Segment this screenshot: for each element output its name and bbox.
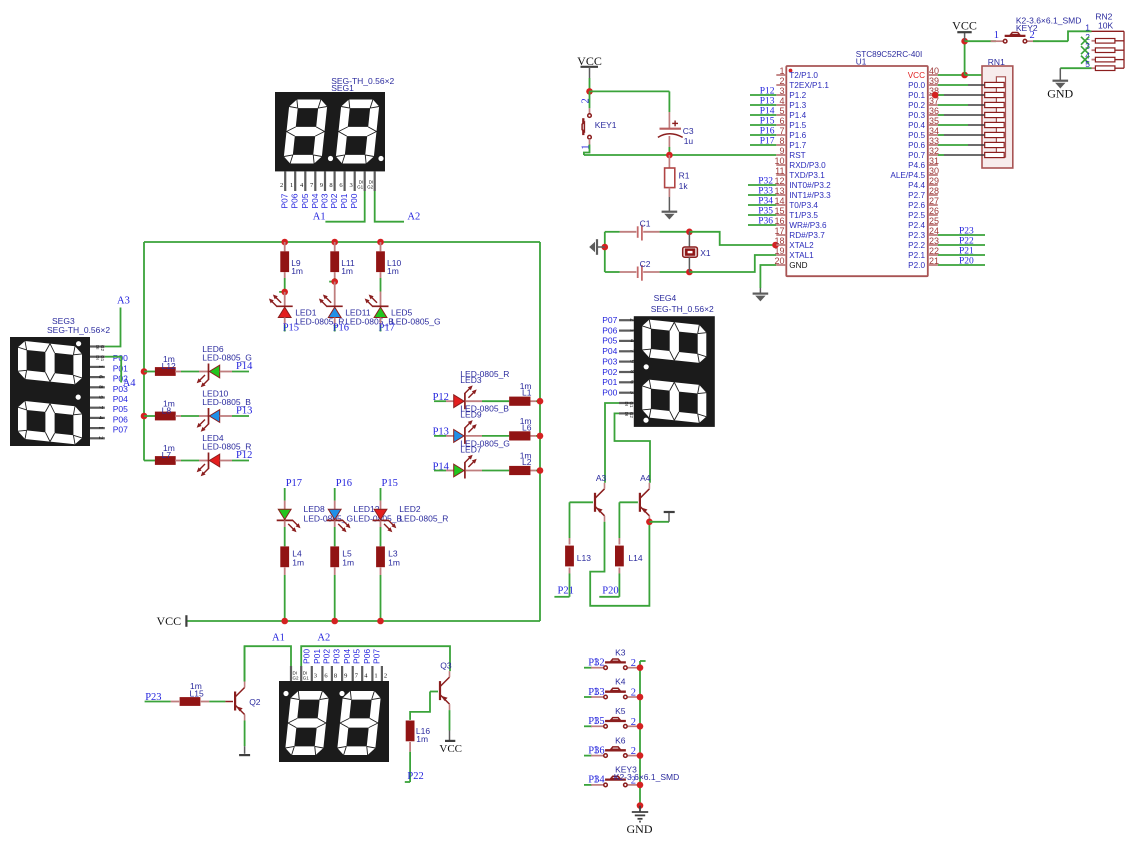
svg-text:26: 26 (929, 206, 939, 216)
svg-text:GND: GND (627, 822, 653, 836)
svg-text:A4: A4 (640, 473, 651, 483)
svg-text:8: 8 (97, 385, 104, 388)
svg-text:P33: P33 (758, 187, 773, 197)
svg-text:19: 19 (774, 246, 784, 256)
svg-text:P0.7: P0.7 (908, 151, 925, 160)
svg-text:P04: P04 (310, 193, 320, 208)
svg-text:DI: DI (624, 412, 629, 417)
svg-text:4: 4 (779, 96, 784, 106)
svg-text:A3: A3 (596, 473, 607, 483)
svg-text:VCC: VCC (157, 614, 182, 628)
svg-text:P17: P17 (760, 137, 775, 147)
svg-text:2: 2 (629, 318, 636, 321)
svg-text:VCC: VCC (439, 743, 462, 755)
svg-text:P04: P04 (113, 394, 128, 404)
svg-text:L2: L2 (522, 457, 532, 467)
svg-text:1: 1 (629, 329, 636, 332)
svg-text:P35: P35 (758, 207, 773, 217)
svg-text:A4: A4 (123, 378, 137, 389)
svg-text:L12: L12 (162, 361, 176, 371)
svg-text:20: 20 (774, 256, 784, 266)
svg-text:K2-3.6×6.1_SMD: K2-3.6×6.1_SMD (614, 772, 679, 782)
svg-text:U1: U1 (856, 58, 867, 67)
svg-text:P01: P01 (602, 377, 617, 387)
svg-text:2: 2 (384, 673, 387, 680)
svg-text:1: 1 (779, 66, 784, 76)
svg-text:36: 36 (929, 106, 939, 116)
svg-text:DI: DI (95, 355, 100, 360)
svg-text:P06: P06 (113, 414, 128, 424)
svg-text:P2.1: P2.1 (908, 251, 925, 260)
svg-text:L13: L13 (577, 553, 591, 563)
svg-text:P05: P05 (113, 404, 128, 414)
svg-text:SEG-TH_0.56×2: SEG-TH_0.56×2 (47, 325, 110, 335)
svg-text:G1: G1 (303, 676, 310, 681)
svg-text:L7: L7 (162, 450, 172, 460)
svg-text:P20: P20 (602, 586, 618, 597)
svg-text:P07: P07 (113, 425, 128, 435)
svg-text:Q3: Q3 (440, 660, 452, 670)
svg-text:P13: P13 (236, 406, 252, 417)
svg-text:P2.3: P2.3 (908, 231, 925, 240)
svg-text:P0.0: P0.0 (908, 81, 925, 90)
svg-text:P1.4: P1.4 (789, 111, 806, 120)
svg-text:G2: G2 (100, 345, 105, 352)
svg-text:G1: G1 (357, 185, 364, 190)
svg-text:R1: R1 (679, 171, 690, 181)
svg-text:A2: A2 (317, 633, 330, 644)
svg-text:3: 3 (629, 391, 636, 394)
svg-text:A1: A1 (272, 633, 285, 644)
svg-text:P2.4: P2.4 (908, 221, 925, 230)
svg-text:P02: P02 (321, 649, 331, 664)
svg-text:P01: P01 (339, 193, 349, 208)
svg-text:1: 1 (374, 673, 377, 680)
svg-text:P14: P14 (236, 361, 253, 372)
svg-text:9: 9 (97, 396, 104, 399)
svg-text:21: 21 (929, 256, 939, 266)
svg-text:P15: P15 (382, 478, 398, 489)
svg-text:P17: P17 (379, 323, 395, 334)
svg-text:P0.5: P0.5 (908, 131, 925, 140)
svg-text:24: 24 (929, 226, 939, 236)
svg-text:6: 6 (779, 116, 784, 126)
svg-text:P0.4: P0.4 (908, 121, 925, 130)
svg-text:1m: 1m (291, 266, 303, 276)
svg-text:P4.6: P4.6 (908, 161, 925, 170)
svg-text:LED-0805_G: LED-0805_G (391, 317, 441, 327)
svg-text:C1: C1 (640, 219, 651, 229)
svg-text:8: 8 (334, 673, 337, 680)
svg-text:GND: GND (1047, 87, 1073, 101)
svg-text:3: 3 (779, 86, 784, 96)
svg-text:A1: A1 (313, 211, 326, 222)
svg-text:LED7: LED7 (460, 444, 482, 454)
svg-text:P05: P05 (300, 193, 310, 208)
svg-text:P22: P22 (959, 237, 974, 247)
svg-text:K6: K6 (615, 735, 626, 745)
svg-text:P36: P36 (758, 217, 773, 227)
svg-text:C3: C3 (683, 126, 694, 136)
svg-text:P23: P23 (959, 227, 974, 237)
svg-text:KEY1: KEY1 (595, 120, 617, 130)
svg-text:11: 11 (775, 166, 784, 176)
svg-text:G2: G2 (367, 185, 374, 190)
svg-text:K4: K4 (615, 677, 626, 687)
svg-text:T2/P1.0: T2/P1.0 (789, 71, 818, 80)
svg-text:RXD/P3.0: RXD/P3.0 (789, 161, 826, 170)
svg-text:LED8: LED8 (304, 504, 326, 514)
svg-text:30: 30 (929, 166, 939, 176)
svg-text:A2: A2 (407, 211, 420, 222)
svg-text:P03: P03 (320, 193, 330, 208)
svg-text:INT1#/P3.3: INT1#/P3.3 (789, 191, 831, 200)
svg-text:P05: P05 (352, 649, 362, 664)
svg-text:P2.5: P2.5 (908, 211, 925, 220)
svg-text:29: 29 (929, 176, 939, 186)
svg-text:P1.7: P1.7 (789, 141, 806, 150)
svg-text:8: 8 (629, 370, 636, 373)
svg-text:SEG-TH_0.56×2: SEG-TH_0.56×2 (651, 304, 714, 314)
svg-text:LED3: LED3 (460, 375, 482, 385)
svg-text:P14: P14 (760, 107, 775, 117)
svg-text:G2: G2 (629, 412, 634, 419)
svg-text:1m: 1m (388, 558, 400, 568)
svg-text:P16: P16 (333, 323, 349, 334)
svg-text:3: 3 (314, 673, 317, 680)
svg-text:32: 32 (929, 146, 939, 156)
svg-text:VCC: VCC (908, 71, 925, 80)
svg-text:P04: P04 (342, 649, 352, 664)
svg-text:T2EX/P1.1: T2EX/P1.1 (789, 81, 829, 90)
svg-text:P1.3: P1.3 (789, 101, 806, 110)
svg-text:P07: P07 (280, 193, 290, 208)
svg-text:P17: P17 (286, 478, 302, 489)
svg-text:2: 2 (631, 658, 636, 669)
svg-text:G1: G1 (100, 355, 105, 362)
svg-text:39: 39 (929, 76, 939, 86)
svg-text:VCC: VCC (952, 19, 977, 33)
svg-text:35: 35 (929, 116, 939, 126)
svg-text:ALE/P4.5: ALE/P4.5 (890, 171, 925, 180)
svg-text:1: 1 (994, 30, 999, 41)
svg-text:P12: P12 (236, 450, 252, 461)
svg-text:10: 10 (774, 156, 784, 166)
svg-text:P03: P03 (602, 356, 617, 366)
svg-text:P02: P02 (602, 367, 617, 377)
svg-text:INT0#/P3.2: INT0#/P3.2 (789, 181, 831, 190)
svg-text:P00: P00 (349, 193, 359, 208)
svg-text:1u: 1u (684, 136, 694, 146)
svg-text:1: 1 (593, 657, 598, 668)
svg-text:P04: P04 (602, 346, 617, 356)
svg-text:P13: P13 (760, 97, 775, 107)
svg-text:T0/P3.4: T0/P3.4 (789, 201, 818, 210)
svg-text:10K: 10K (1098, 21, 1113, 31)
svg-text:2: 2 (779, 76, 784, 86)
svg-text:2: 2 (280, 182, 283, 189)
svg-text:27: 27 (929, 196, 939, 206)
svg-text:25: 25 (929, 216, 939, 226)
svg-text:P05: P05 (602, 336, 617, 346)
svg-text:P1.6: P1.6 (789, 131, 806, 140)
svg-text:40: 40 (929, 66, 939, 76)
svg-text:P06: P06 (362, 649, 372, 664)
svg-text:2: 2 (631, 688, 636, 699)
svg-text:P15: P15 (760, 117, 775, 127)
svg-text:1: 1 (1085, 22, 1090, 32)
svg-text:P0.3: P0.3 (908, 111, 925, 120)
svg-text:P02: P02 (329, 193, 339, 208)
svg-text:1: 1 (593, 716, 598, 727)
svg-text:P06: P06 (602, 325, 617, 335)
svg-text:7: 7 (779, 126, 784, 136)
svg-text:P06: P06 (290, 193, 300, 208)
svg-text:P20: P20 (959, 257, 974, 267)
svg-text:31: 31 (929, 156, 939, 166)
svg-text:22: 22 (929, 246, 939, 256)
svg-text:1m: 1m (292, 558, 304, 568)
svg-text:P01: P01 (312, 649, 322, 664)
svg-text:C2: C2 (640, 259, 651, 269)
svg-text:P1.5: P1.5 (789, 121, 806, 130)
svg-text:P16: P16 (336, 478, 352, 489)
svg-text:34: 34 (929, 126, 939, 136)
svg-text:P07: P07 (602, 315, 617, 325)
svg-text:K5: K5 (615, 706, 626, 716)
svg-text:23: 23 (929, 236, 939, 246)
svg-text:L6: L6 (522, 422, 532, 432)
svg-text:9: 9 (779, 146, 784, 156)
svg-text:SEG1: SEG1 (331, 83, 354, 93)
svg-text:2: 2 (97, 436, 104, 439)
svg-text:1m: 1m (387, 266, 399, 276)
svg-text:P0.1: P0.1 (908, 91, 925, 100)
svg-text:TXD/P3.1: TXD/P3.1 (789, 171, 825, 180)
svg-text:8: 8 (329, 182, 332, 189)
svg-text:P12: P12 (760, 87, 775, 97)
svg-text:P4.4: P4.4 (908, 181, 925, 190)
svg-text:1: 1 (290, 182, 293, 189)
svg-text:X1: X1 (700, 248, 711, 258)
svg-text:L1: L1 (522, 388, 532, 398)
svg-text:P21: P21 (558, 586, 574, 597)
svg-text:P07: P07 (371, 649, 381, 664)
svg-text:1m: 1m (416, 734, 428, 744)
svg-text:1m: 1m (342, 558, 354, 568)
svg-text:WR#/P3.6: WR#/P3.6 (789, 221, 827, 230)
svg-text:LED2: LED2 (399, 504, 421, 514)
svg-text:2: 2 (631, 746, 636, 757)
svg-text:T1/P3.5: T1/P3.5 (789, 211, 818, 220)
svg-text:1: 1 (593, 745, 598, 756)
svg-text:P00: P00 (602, 388, 617, 398)
svg-text:Q2: Q2 (249, 697, 261, 707)
svg-text:1: 1 (593, 687, 598, 698)
svg-text:KEY2: KEY2 (1016, 23, 1038, 33)
svg-text:G1: G1 (629, 402, 634, 409)
svg-text:RD#/P3.7: RD#/P3.7 (789, 231, 825, 240)
svg-text:P2.0: P2.0 (908, 261, 925, 270)
svg-text:P2.2: P2.2 (908, 241, 925, 250)
svg-text:SEG4: SEG4 (654, 293, 677, 303)
svg-text:RN1: RN1 (988, 57, 1005, 67)
svg-text:5: 5 (779, 106, 784, 116)
svg-text:9: 9 (629, 360, 636, 363)
svg-text:P15: P15 (283, 323, 299, 334)
svg-text:LED9: LED9 (460, 410, 482, 420)
svg-text:1: 1 (97, 426, 104, 429)
svg-text:2: 2 (581, 98, 592, 103)
svg-text:LED-0805_G: LED-0805_G (304, 514, 354, 524)
svg-text:K3: K3 (615, 647, 626, 657)
svg-text:P03: P03 (332, 649, 342, 664)
svg-text:A3: A3 (117, 296, 130, 307)
svg-text:DI: DI (624, 402, 629, 407)
svg-text:P0.2: P0.2 (908, 101, 925, 110)
svg-text:P2.7: P2.7 (908, 191, 925, 200)
svg-text:P22: P22 (407, 771, 423, 782)
svg-text:28: 28 (929, 186, 939, 196)
svg-text:8: 8 (779, 136, 784, 146)
svg-text:33: 33 (929, 136, 939, 146)
svg-text:1: 1 (593, 774, 598, 785)
svg-text:18: 18 (774, 236, 784, 246)
svg-text:P16: P16 (760, 127, 775, 137)
svg-text:P00: P00 (301, 649, 311, 664)
svg-text:P2.6: P2.6 (908, 201, 925, 210)
svg-text:L14: L14 (628, 553, 642, 563)
svg-text:XTAL1: XTAL1 (789, 251, 814, 260)
svg-text:3: 3 (349, 182, 352, 189)
svg-text:DI: DI (95, 345, 100, 350)
svg-text:P34: P34 (758, 197, 773, 207)
svg-text:L8: L8 (162, 406, 172, 416)
svg-text:1k: 1k (679, 181, 689, 191)
svg-text:LED-0805_R: LED-0805_R (399, 514, 448, 524)
svg-text:XTAL2: XTAL2 (789, 241, 814, 250)
svg-text:1: 1 (97, 365, 104, 368)
svg-text:P0.6: P0.6 (908, 141, 925, 150)
svg-text:GND: GND (789, 261, 807, 270)
svg-text:L15: L15 (190, 688, 204, 698)
svg-text:1m: 1m (341, 266, 353, 276)
svg-text:P21: P21 (959, 247, 974, 257)
svg-text:RST: RST (789, 151, 805, 160)
svg-text:9: 9 (320, 182, 323, 189)
svg-text:2: 2 (631, 717, 636, 728)
svg-text:9: 9 (344, 673, 347, 680)
svg-text:P1.2: P1.2 (789, 91, 806, 100)
svg-text:G2: G2 (293, 676, 300, 681)
svg-text:P32: P32 (758, 177, 773, 187)
svg-text:17: 17 (774, 226, 784, 236)
